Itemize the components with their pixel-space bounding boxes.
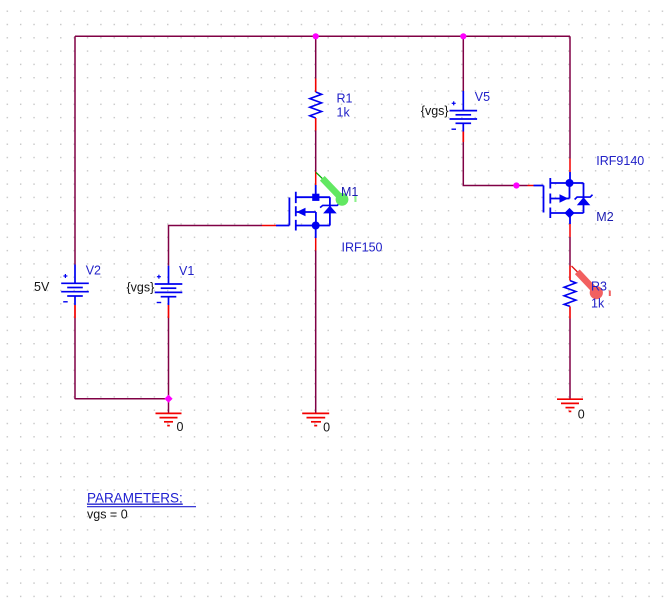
svg-text:0: 0 <box>578 408 585 422</box>
svg-text:IRF150: IRF150 <box>342 240 383 254</box>
M1 drain pin stub <box>315 172 317 186</box>
M1 right vertical with body diode path <box>329 197 331 225</box>
junction dot V5 to M2 gate wire <box>513 182 519 188</box>
M2 channel dashes <box>549 178 551 218</box>
M2 source lead <box>569 213 571 224</box>
voltage marker on M1 drain (green probe) <box>316 172 357 206</box>
M2 drain lead <box>569 172 571 183</box>
svg-text:M1: M1 <box>341 185 358 199</box>
wire rail right vertical to M2 drain <box>569 36 571 158</box>
M1 source bar <box>296 225 330 227</box>
M2 source bar <box>550 212 583 214</box>
svg-text:PARAMETERS:: PARAMETERS: <box>87 491 183 506</box>
wire V1 bottom <box>168 318 170 413</box>
junction dot top rail / V5 <box>460 33 466 39</box>
M2 gate lead and bar <box>534 186 544 213</box>
M1 drain junction square <box>312 194 319 201</box>
svg-text:V5: V5 <box>475 90 490 104</box>
M2 drain bar <box>550 182 583 184</box>
wire V5 bottom to M2 gate <box>463 142 527 186</box>
svg-text:{vgs}: {vgs} <box>421 104 449 118</box>
M1 drain bar <box>296 196 330 198</box>
transistor M1 IRF150 <box>262 185 330 238</box>
M2 body diode cathode bar <box>575 195 593 200</box>
M2 drain junction dot <box>566 179 574 187</box>
transistor M2 IRF9140 <box>528 172 584 224</box>
svg-text:IRF9140: IRF9140 <box>596 154 644 168</box>
M1 source pin stub <box>315 238 317 251</box>
M1 body diode triangle <box>323 206 337 214</box>
M2 body arrow head <box>560 194 569 202</box>
wire M1 source to ground <box>315 251 317 414</box>
M2 source junction diamond <box>564 208 574 218</box>
wire bottom-left horizontal <box>75 398 169 400</box>
svg-text:R3: R3 <box>591 280 607 294</box>
junction dot bottom-left ground node <box>164 395 172 403</box>
svg-text:5V: 5V <box>34 280 50 294</box>
wire top rail <box>75 35 570 37</box>
M2 body diode triangle <box>577 197 591 205</box>
svg-text:M2: M2 <box>596 210 613 224</box>
M1 source junction dot <box>312 222 320 230</box>
svg-text:V1: V1 <box>179 264 194 278</box>
current marker on R3 (red probe) <box>572 266 611 299</box>
M1 channel dashes <box>295 192 297 231</box>
M2 gate pin stub <box>528 185 534 187</box>
M1 body diode cathode bar <box>320 203 340 208</box>
voltage source V5 <box>450 91 478 142</box>
wire rail to R1 <box>315 36 317 78</box>
resistor R3 <box>564 266 576 319</box>
ground 0 at M1 source <box>302 413 329 425</box>
wire V1 top to M1 gate <box>169 226 263 266</box>
svg-text:0: 0 <box>177 420 184 434</box>
M2 source pin stub <box>569 224 571 237</box>
M1 drain lead <box>315 185 317 197</box>
wire left vertical to V2 <box>74 36 76 264</box>
voltage source V2 <box>61 265 89 319</box>
wire R3 to ground <box>569 319 571 400</box>
ground 0 at V1/V2 node <box>156 413 182 425</box>
ground 0 at R3 <box>557 399 583 411</box>
svg-text:R1: R1 <box>337 92 353 106</box>
wire rail to V5 <box>462 36 464 91</box>
voltage source V1 <box>155 266 183 318</box>
svg-text:1k: 1k <box>337 106 351 120</box>
wire M2 source to R3 <box>569 237 571 266</box>
M2 right vertical <box>583 183 585 213</box>
M1 gate lead and bar <box>276 198 289 226</box>
M1 body arrow head <box>297 208 306 216</box>
svg-text:vgs = 0: vgs = 0 <box>87 508 128 522</box>
M1 body to source vertical <box>315 212 317 226</box>
parameters underline extension <box>87 506 196 508</box>
svg-text:1k: 1k <box>591 297 605 311</box>
M2 drain pin stub <box>569 159 571 173</box>
svg-text:0: 0 <box>323 421 330 435</box>
M1 source lead <box>315 226 317 239</box>
junction dot top rail / R1 <box>313 33 319 39</box>
M1 gate pin stub <box>262 225 276 227</box>
M2 body bar <box>550 198 569 200</box>
wire V2 bottom <box>74 318 76 399</box>
M1 body bar with arrow line <box>297 211 316 213</box>
svg-text:{vgs}: {vgs} <box>127 281 155 295</box>
wire R1 to M1 drain <box>315 131 317 172</box>
svg-text:V2: V2 <box>86 264 101 278</box>
M2 top to body vertical <box>569 183 571 199</box>
resistor R1 <box>310 79 322 131</box>
